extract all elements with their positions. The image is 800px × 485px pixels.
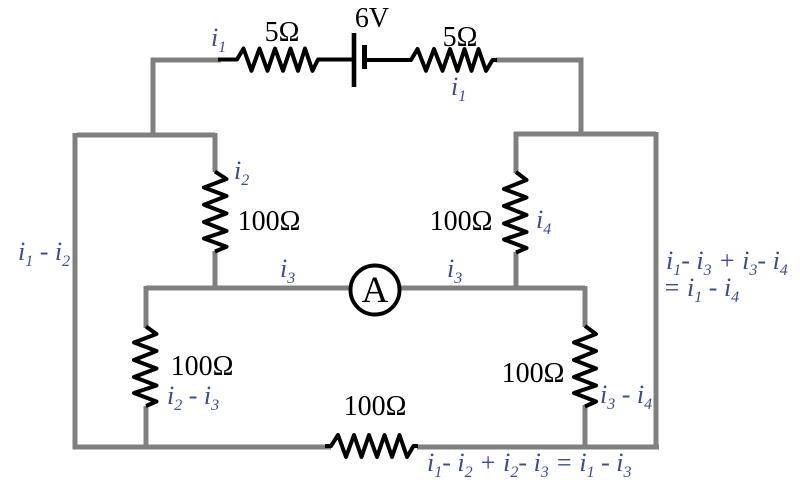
net equation right line 2: = i1 - i4 bbox=[663, 273, 739, 306]
svg-text:6V: 6V bbox=[355, 3, 389, 34]
current label i2-i3 beside R5 bbox=[167, 381, 219, 414]
wire right outer vertical bbox=[656, 132, 659, 447]
wire R4 top stub bbox=[514, 132, 519, 173]
value label 5 ohm right bbox=[443, 22, 478, 53]
value label 6V bbox=[355, 3, 389, 34]
wire R4 bottom stub bbox=[514, 252, 519, 290]
current label i1 top-left bbox=[211, 23, 226, 56]
resistor R7 100 ohm (bottom horizontal) bbox=[325, 435, 418, 457]
svg-text:100Ω: 100Ω bbox=[171, 351, 234, 382]
wire top-right (R3 to right drop) bbox=[496, 60, 581, 134]
current label i3 right of ammeter bbox=[447, 254, 462, 287]
wire R5 bottom stub bbox=[144, 406, 149, 449]
battery V1 6V long plate bbox=[352, 33, 357, 87]
resistor R5 100 ohm (lower left vertical) bbox=[134, 327, 157, 407]
value label 100 ohm R7 bbox=[344, 391, 407, 422]
svg-text:100Ω: 100Ω bbox=[238, 206, 301, 237]
current label i3 left of ammeter bbox=[280, 254, 295, 287]
current label i4 beside R4 bbox=[536, 205, 551, 238]
net equation right line 1: i1 - i3 + i3 - i4 bbox=[666, 246, 788, 279]
wire upper-left horizontal node bbox=[77, 133, 215, 138]
value label 100 ohm R6 bbox=[502, 358, 565, 389]
wire upper-right horizontal node bbox=[514, 132, 656, 137]
value label 100 ohm R5 bbox=[171, 351, 234, 382]
ammeter U1 circle bbox=[351, 266, 400, 315]
wire top-left (node A to R1, with drop to left branch) bbox=[153, 60, 221, 135]
wire R5 top stub bbox=[144, 286, 149, 328]
svg-text:i1- i2 + i2- i3 = i1 - i3: i1- i2 + i2- i3 = i1 - i3 bbox=[427, 448, 631, 481]
svg-text:100Ω: 100Ω bbox=[344, 391, 407, 422]
battery V1 6V short plate bbox=[362, 45, 367, 69]
wire middle horizontal (through ammeter) bbox=[146, 286, 585, 291]
current label i1 below R3 bbox=[451, 72, 466, 105]
svg-text:A: A bbox=[362, 270, 389, 311]
wire R6 bottom stub bbox=[583, 405, 588, 449]
wire R6 top stub bbox=[583, 286, 588, 327]
net equation bottom: i1 - i2 + i2 - i3 = i1 - i3 bbox=[427, 448, 631, 481]
value label 100 ohm R4 bbox=[430, 206, 493, 237]
svg-text:100Ω: 100Ω bbox=[430, 206, 493, 237]
current label i1-i2 left branch bbox=[18, 237, 70, 270]
wire R2 bottom stub bbox=[213, 251, 218, 290]
resistor R3 5 ohm (top right) bbox=[367, 49, 498, 71]
value label 100 ohm R2 bbox=[238, 206, 301, 237]
resistor R2 100 ohm (upper left vertical) bbox=[204, 172, 227, 252]
svg-text:100Ω: 100Ω bbox=[502, 358, 565, 389]
resistor R4 100 ohm (upper right vertical) bbox=[504, 172, 527, 253]
svg-text:5Ω: 5Ω bbox=[265, 17, 300, 48]
wire bottom right segment bbox=[417, 445, 659, 450]
resistor R6 100 ohm (lower right vertical) bbox=[574, 326, 596, 407]
wire R2 top stub bbox=[213, 133, 218, 172]
ammeter U1 letter A bbox=[362, 270, 389, 311]
value label 5 ohm left bbox=[265, 17, 300, 48]
current label i2 beside R2 bbox=[234, 156, 249, 189]
wire left outer vertical bbox=[75, 133, 331, 447]
resistor R1 5 ohm (top left) bbox=[218, 49, 352, 71]
svg-text:5Ω: 5Ω bbox=[443, 22, 478, 53]
current label i3-i4 beside R6 bbox=[600, 380, 652, 413]
